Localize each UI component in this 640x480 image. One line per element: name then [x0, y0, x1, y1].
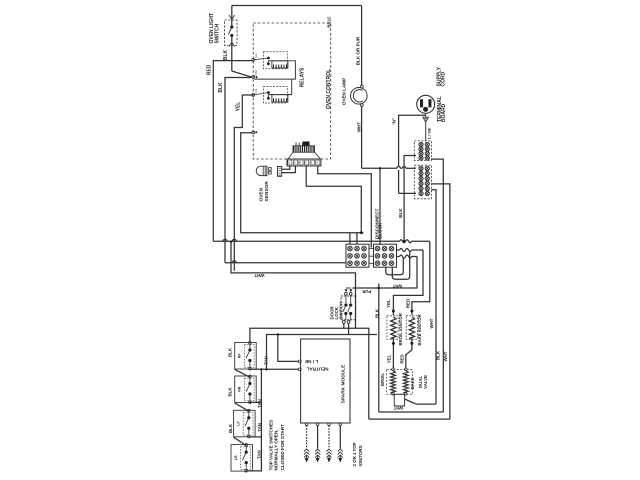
top valve switch RR: [235, 375, 257, 404]
label spark module: [340, 364, 346, 403]
wire top bus: [232, 5, 362, 7]
svg-text:BROIL IGNITOR: BROIL IGNITOR: [398, 312, 403, 345]
wire 334 to BLK vertical: [376, 333, 378, 335]
bake ignitor: [406, 316, 417, 340]
svg-text:DUAL: DUAL: [418, 375, 423, 388]
svg-text:CORD: CORD: [441, 71, 447, 86]
wire diag 1: [235, 369, 250, 377]
svg-text:4: 4: [298, 162, 302, 164]
wire TAN bus lr: [246, 437, 261, 471]
label oven sensor: [259, 181, 270, 202]
svg-text:YEL: YEL: [235, 102, 241, 112]
oven sensor: [256, 166, 282, 176]
svg-text:BLK: BLK: [398, 208, 403, 218]
svg-text:COM: COM: [254, 70, 258, 76]
svg-text:RF: RF: [238, 353, 242, 359]
disconnect block right: [374, 244, 397, 267]
svg-text:BLK: BLK: [228, 347, 233, 357]
svg-text:RED: RED: [399, 354, 404, 363]
wire diag 2: [235, 403, 249, 411]
svg-text:YEL: YEL: [386, 299, 391, 308]
svg-text:2: 2: [309, 162, 313, 164]
svg-text:SWITCH: SWITCH: [214, 23, 220, 43]
svg-text:WHT: WHT: [254, 273, 264, 278]
top valve switch LR: [231, 444, 253, 473]
wire to relay common: [232, 71, 253, 77]
svg-text:1: 1: [315, 162, 319, 164]
label terminal board: [437, 96, 447, 122]
label door lock switch: [329, 302, 343, 319]
svg-text:RS1C: RS1C: [326, 16, 331, 27]
svg-text:BLK: BLK: [218, 82, 224, 93]
label WHT bus: [254, 273, 264, 278]
wire rail 3: [369, 418, 450, 420]
relay terminal N.O. upper: [252, 53, 258, 62]
wire sensor to pin6: [282, 166, 290, 169]
svg-text:OVEN CONTROL: OVEN CONTROL: [326, 69, 332, 109]
svg-text:BLK OR PUR: BLK OR PUR: [355, 36, 360, 65]
svg-text:2 OR 4 TOP: 2 OR 4 TOP: [352, 442, 357, 466]
valve body: [394, 394, 404, 406]
wire RED: [206, 61, 253, 242]
hop bus1 b: [232, 239, 236, 241]
wire valve to rail: [405, 399, 416, 404]
wire stub col2: [356, 233, 358, 245]
spark module box: [301, 339, 350, 423]
svg-text:RED: RED: [406, 299, 411, 308]
svg-text:6: 6: [287, 162, 291, 164]
wire sensor to pin5: [282, 166, 296, 173]
wire RF top: [250, 328, 369, 419]
svg-text:NEUTRAL: NEUTRAL: [306, 367, 328, 372]
spark electrodes: [304, 423, 343, 463]
svg-text:BLK: BLK: [374, 308, 379, 318]
wire from lower terminal: [241, 133, 364, 234]
label BLK rf: [228, 347, 233, 357]
svg-text:BLOCK: BLOCK: [378, 222, 383, 239]
wire YEL: [234, 95, 253, 271]
label TAN rf: [264, 356, 269, 365]
hop bus1 a: [223, 239, 227, 241]
wire door bottoms: [344, 323, 349, 334]
crimp 2: [397, 249, 424, 252]
wire white run: [362, 167, 416, 169]
wire BLK from light switch: [223, 47, 232, 72]
wire rail 2: [379, 411, 444, 413]
oven light switch: [225, 6, 238, 47]
svg-text:BLK: BLK: [223, 49, 229, 60]
svg-text:BLK: BLK: [436, 350, 441, 360]
svg-text:PUR: PUR: [362, 289, 371, 294]
svg-text:RED: RED: [206, 64, 212, 75]
label top ignitors: [352, 442, 363, 466]
wire bus3: [225, 261, 346, 263]
label broil ignitor: [398, 312, 403, 345]
crimp 1: [400, 240, 430, 243]
svg-text:VALVE: VALVE: [423, 375, 428, 389]
label WHT ignitor: [429, 318, 434, 328]
wire crimp3 to door lock: [353, 257, 418, 290]
wire to disconnect: [379, 167, 381, 245]
svg-text:WHT: WHT: [357, 122, 362, 133]
wire pin3 run: [318, 166, 372, 248]
oven lamp: [351, 85, 368, 106]
wire bus v1: [431, 190, 436, 404]
svg-text:OVEN: OVEN: [259, 187, 265, 201]
svg-text:WHT: WHT: [429, 318, 434, 328]
label BLK lf: [228, 423, 233, 433]
spark module line terminal: [298, 359, 318, 364]
wire crimp3 to block col2: [386, 258, 404, 275]
label oven light switch: [209, 13, 221, 44]
wire diag 3: [234, 437, 247, 445]
svg-text:SWITCH: SWITCH: [339, 302, 344, 319]
wire BLK 2: [218, 78, 253, 263]
svg-text:CLOSED FOR START: CLOSED FOR START: [280, 424, 285, 471]
wire WHT from lamp: [357, 106, 362, 168]
wire crimp2 to block col3: [392, 251, 409, 279]
wire LINE feed: [277, 333, 299, 361]
wire bus1 RED: [213, 240, 399, 242]
label WHT right: [443, 351, 448, 361]
svg-text:BLK: BLK: [228, 423, 233, 433]
svg-text:RELAYS: RELAYS: [300, 67, 306, 87]
svg-text:BAKE IGNITOR: BAKE IGNITOR: [417, 313, 422, 345]
label line: [426, 128, 431, 140]
svg-text:SPARK MODULE: SPARK MODULE: [340, 364, 346, 403]
label oven lamp: [341, 78, 346, 105]
wire TAN riser: [265, 335, 377, 371]
label dual valve: [418, 375, 428, 389]
svg-text:“N”: “N”: [391, 118, 396, 126]
svg-text:NORMALLY OPEN,: NORMALLY OPEN,: [274, 429, 279, 470]
svg-text:LR: LR: [234, 455, 238, 460]
spark module neutral terminal: [298, 367, 328, 372]
label supply cord: [437, 66, 447, 86]
svg-text:BOARD: BOARD: [441, 103, 447, 122]
connector P1 pins: [287, 142, 321, 166]
label broil coil: [380, 373, 385, 386]
svg-text:L I NE: L I NE: [426, 128, 431, 140]
svg-text:TOP VALVE SWITCHES: TOP VALVE SWITCHES: [268, 420, 273, 471]
label WHT junction: [392, 283, 402, 288]
wire rail 1: [416, 403, 436, 405]
dual valve coils: [387, 368, 413, 395]
disconnect block left: [346, 244, 369, 267]
label BLK rr: [228, 387, 233, 397]
wire yel to broil coil: [387, 339, 395, 369]
wire N: [391, 115, 425, 193]
relay K2: [253, 79, 292, 103]
label TAN lf: [257, 423, 262, 432]
svg-text:5: 5: [292, 162, 296, 164]
label PUR: [362, 289, 371, 294]
svg-text:IGNITORS: IGNITORS: [358, 445, 363, 466]
oven control box: [253, 16, 332, 159]
wire TAN bus: [250, 368, 263, 402]
wire BLK OR PUR: [355, 6, 361, 86]
wire crimp2 to yel ignitor: [393, 250, 423, 310]
label BLK right: [436, 350, 441, 360]
door lock switch: [341, 288, 356, 323]
svg-text:N.O.: N.O.: [254, 88, 258, 94]
wire bus v2: [431, 159, 443, 412]
broil ignitor: [387, 316, 398, 340]
svg-text:WHT: WHT: [392, 283, 402, 288]
top valve switch RF: [235, 342, 257, 371]
label bake ignitor: [417, 313, 422, 345]
crimp 3: [397, 255, 418, 258]
wire YEL ignitor: [386, 299, 395, 315]
relay terminal N.O. lower: [252, 88, 258, 97]
wire RF bottom to neutral: [250, 368, 299, 370]
svg-text:TAN: TAN: [257, 450, 262, 459]
label top valve switches: [268, 420, 284, 471]
label WHT valve: [393, 405, 403, 410]
svg-text:WHT: WHT: [443, 351, 448, 361]
wire pin4 run: [306, 166, 361, 233]
label relays: [300, 67, 306, 87]
svg-text:BAKE: BAKE: [410, 377, 415, 389]
svg-text:L I NE: L I NE: [305, 359, 318, 364]
wire stub col1: [349, 233, 351, 245]
svg-text:N.O.: N.O.: [254, 53, 258, 59]
wire between blocks: [369, 249, 374, 264]
wire red to bake coil: [399, 339, 413, 369]
label TAN rr: [257, 399, 262, 408]
wire crimp1 to red ignitor: [412, 241, 430, 309]
wire RED ignitor: [406, 299, 414, 315]
wire BLK block to rail: [374, 284, 379, 413]
wire bus v3: [431, 184, 450, 419]
label disconnect block: [374, 208, 382, 239]
supply cord plug: [417, 95, 435, 141]
svg-text:YEL: YEL: [387, 354, 392, 363]
wire bus4: [230, 241, 356, 329]
svg-text:BROIL: BROIL: [380, 373, 385, 386]
relay terminal COM: [252, 70, 258, 78]
terminal board: [414, 141, 431, 199]
svg-text:BLK: BLK: [228, 387, 233, 397]
svg-text:OVEN LAMP: OVEN LAMP: [341, 78, 346, 105]
wire BLK down: [398, 156, 416, 242]
oven control lower terminal: [252, 131, 257, 134]
label bake coil: [410, 377, 415, 389]
top valve switch LF: [234, 409, 256, 438]
wire TAN bus lf: [249, 402, 262, 437]
svg-text:3: 3: [304, 162, 308, 164]
svg-text:SENSOR: SENSOR: [264, 181, 270, 202]
relay K1: [253, 52, 295, 79]
label TAN lr: [257, 450, 262, 459]
svg-text:RR: RR: [238, 386, 242, 392]
svg-text:WHT: WHT: [393, 405, 403, 410]
